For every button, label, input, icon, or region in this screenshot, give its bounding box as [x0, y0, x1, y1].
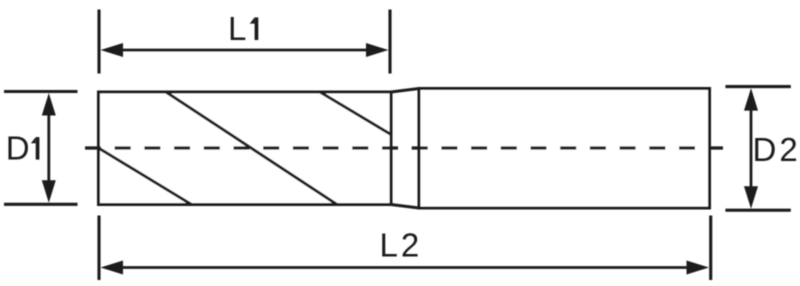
svg-text:D2: D2: [753, 131, 800, 168]
svg-text:L: L: [228, 10, 246, 47]
svg-text:L2: L2: [380, 227, 423, 264]
svg-text:D: D: [6, 130, 30, 167]
